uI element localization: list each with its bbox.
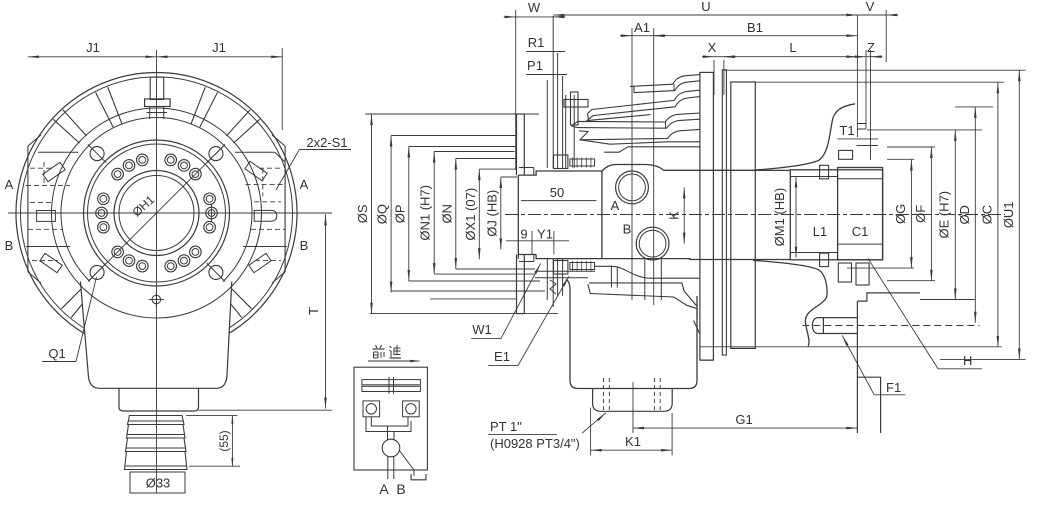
diameter extension line y=274 [434,273,535,275]
drive plate line x=566 [565,95,567,168]
diameter extension line y=269 [456,268,535,270]
diameter extension top line y=177 [501,176,517,178]
flange step [519,167,534,169]
svg-text:ØE (H7): ØE (H7) [937,191,952,239]
svg-text:A: A [300,177,309,192]
svg-text:K1: K1 [625,434,641,449]
svg-text:ØN: ØN [439,204,454,224]
front view rib at 228 deg [61,281,89,309]
drive plate line x=563 [562,76,564,168]
svg-text:PT 1": PT 1" [490,419,522,434]
right extension line y=159 [887,158,914,160]
right extension line y=359 [940,358,1026,360]
dimension ON [455,159,457,270]
drive plate lower line x=558 [557,259,559,296]
front view tab upper right [245,161,267,180]
svg-text:(55): (55) [217,430,231,451]
svg-text:B: B [300,238,309,253]
front view rib at 135 deg [63,110,87,136]
main centerline [505,214,1005,216]
drive plate line x=574 [573,95,575,168]
svg-text:K: K [667,211,682,220]
lower right wall [857,293,920,433]
svg-text:ØG: ØG [893,204,908,224]
front view right block hidden lines [259,167,283,169]
mounting flange plate [516,114,518,175]
svg-text:ØU1: ØU1 [1001,201,1016,228]
port A circle [616,171,649,204]
svg-text:W: W [528,0,541,15]
front view S1 crossed hole marks [209,147,223,161]
output hub body [790,170,882,260]
dimension ON1 [433,152,435,275]
drive plate lower line x=547 [546,259,548,300]
diameter extension line y=281 [409,280,540,282]
X extension lines [713,60,715,95]
sensor pin H [812,318,857,334]
dimension OG [910,160,912,269]
front view hub bore circle [114,171,199,256]
diameter extension top line y=146 [409,146,516,148]
drain plugs dashed [603,378,605,411]
svg-text:(H0928 PT3/4"): (H0928 PT3/4") [490,436,580,451]
svg-text:B: B [5,238,14,253]
dimension OS [371,114,373,314]
pin hidden centerline [802,325,979,327]
dimension K [683,187,685,243]
front view tab lower left [40,253,62,272]
right extension line y=347 [700,346,1002,348]
front view fin root circle [52,108,262,318]
sump outline [566,280,697,389]
svg-text:ØC: ØC [980,205,995,225]
upper adjusting bolt [564,100,588,108]
dimension K1 [591,449,673,451]
svg-text:X: X [708,40,717,55]
svg-text:Q1: Q1 [48,346,65,361]
svg-text:J1: J1 [86,40,100,55]
svg-text:R1: R1 [528,35,545,50]
drive plate lower line x=553 [552,259,554,307]
svg-text:ØM1 (HB): ØM1 (HB) [772,188,787,247]
svg-text:J1: J1 [212,40,226,55]
diameter extension top line y=152 [434,151,514,153]
svg-text:H: H [963,353,972,368]
lever support lines lower [535,270,595,272]
flange wall line a [856,15,858,137]
drive plate lower line x=563 [562,259,564,296]
dimension OJ [500,177,502,249]
front view diagonal centerline [89,146,223,280]
diameter extension top line y=169 [479,168,517,170]
W extension line [515,10,517,170]
front view bolt hole circle ring [204,221,216,233]
front view right key [254,210,277,221]
thread stud upper [554,155,568,169]
coupling C1 block [838,168,883,260]
clutch plate right [700,72,714,360]
dimension OD [974,107,976,323]
thread stud lower [554,261,568,275]
svg-text:Ø33: Ø33 [146,476,171,491]
diameter extension line y=314 [370,313,558,315]
hub lower rings [838,263,851,282]
diameter extension line y=291 [391,290,545,292]
svg-text:L1: L1 [813,224,827,239]
svg-text:50: 50 [550,185,564,200]
svg-text:ØX1 (07): ØX1 (07) [463,188,478,241]
K1 extension lines [590,408,592,456]
right extension line y=281 [887,280,935,282]
front view bearing outer circle [84,140,230,286]
svg-text:B: B [396,481,405,497]
front view left side block [27,146,29,272]
front view lower housing outline [80,282,231,389]
dimension OM1 [795,177,797,258]
dimension G1 [633,427,857,429]
dimension B1 [654,35,858,37]
front view inner ring circle [61,117,252,300]
dimension U [553,14,857,16]
right extension line y=268 [847,267,914,269]
svg-text:C1: C1 [852,224,869,239]
front view outer rim inner circle [20,77,292,332]
svg-text:W1: W1 [472,322,492,337]
svg-text:A: A [611,198,620,213]
svg-text:9: 9 [520,227,527,242]
bore wall lines below [644,260,646,301]
port A extension line [631,28,633,300]
svg-text:F1: F1 [886,380,901,395]
dimension OQ [390,136,392,293]
diameter extension top line y=158 [456,158,516,160]
right extension line y=70 [724,69,1025,71]
dimension A1 [632,35,654,37]
svg-text:A: A [379,481,389,497]
front view top plug [150,77,164,99]
svg-text:ØN1 (H7): ØN1 (H7) [418,185,433,241]
backing plate [722,70,726,355]
svg-text:Z: Z [867,40,875,55]
sump lip [593,389,673,412]
svg-text:T1: T1 [839,123,854,138]
housing neck upper curve [751,104,855,171]
clutch lever stack lower [595,266,700,278]
front view hub inner circle [119,176,194,251]
svg-text:B: B [623,222,632,237]
front view neck flange [119,389,199,412]
output hub bore lines [790,176,837,178]
front view bearing inner circle [88,144,226,282]
housing neck lower curve [753,260,827,346]
svg-text:E1: E1 [494,349,510,364]
svg-text:U: U [701,0,710,14]
svg-text:A: A [5,177,14,192]
drive plate line x=547 [546,80,548,168]
front view tab upper left [43,162,65,181]
svg-text:Y1: Y1 [537,227,553,242]
front view bottom center mark [152,295,161,304]
front view rib at 45 deg [234,119,260,143]
V extension line [885,10,887,62]
flange wall line b [865,50,867,129]
front view hose barb fitting [128,416,185,425]
dimension J1 [28,56,282,58]
front view left key [37,211,56,222]
front view tab lower right [249,253,271,272]
ring T1 [839,150,853,159]
output hub top line [751,169,790,171]
G1 extension line [632,382,634,433]
svg-text:L: L [789,40,796,55]
shaft step line 50 [521,200,596,202]
diameter extension top line y=136 [391,135,516,137]
dimension OP [408,147,410,282]
front view right side block [284,146,286,272]
drive plate line x=558 [557,53,559,168]
svg-text:A1: A1 [634,20,650,35]
dimension OX1 [478,169,480,259]
bearing block [731,82,756,348]
dimension OF [930,147,932,281]
dimension V [857,14,886,16]
front view lower housing silhouette [80,282,231,389]
right extension line y=130 [867,129,982,131]
dimension O33 [130,472,185,493]
svg-text:ØQ: ØQ [375,204,390,224]
shaft cylinder outline [518,171,602,259]
front view horizontal centerline [8,212,332,214]
dimension OC [997,82,999,347]
front view vertical centerline [156,50,158,493]
svg-text:ØP: ØP [392,204,407,223]
port B circle [636,227,669,260]
front view rib at 312 deg [217,287,242,317]
dimension T [325,214,327,408]
svg-text:ØJ (HB): ØJ (HB) [484,190,499,237]
svg-text:2x2-S1: 2x2-S1 [306,135,347,150]
clutch lever stack upper [630,75,700,87]
right extension line y=360 [700,359,714,361]
front view rib at 114 deg [108,87,122,123]
dimension (55) [231,416,233,467]
flange wall line c [870,50,872,160]
dimension OE [954,130,956,300]
svg-text:P1: P1 [527,58,543,73]
front view left block hidden lines [30,167,54,169]
dimension W [516,16,554,18]
front view outer rim circle [16,73,297,336]
svg-text:T: T [306,307,321,315]
forward gear detail schematic [354,367,427,470]
flange top edge line [365,113,539,115]
right extension line y=300 [920,299,975,301]
svg-text:ØS: ØS [355,204,370,223]
dimension Z [866,56,871,58]
dimension OU1 [1018,70,1020,359]
port B extension line [653,28,655,305]
port boss top outline [602,165,751,172]
svg-text:V: V [866,0,875,14]
right extension line y=107 [955,106,993,108]
front view bolt hole position tick [211,204,213,222]
drive plate line x=553 [552,16,554,168]
dimension L [724,56,858,58]
wall notch [857,123,866,125]
svg-text:G1: G1 [735,412,752,427]
dimension X [714,56,724,58]
bore bottom outline [602,258,790,261]
front view rib at 66 deg [200,93,218,128]
right extension line y=82 [755,81,1004,83]
right extension line y=147 [887,146,935,148]
snap ring L1 [820,165,829,179]
svg-text:ØF: ØF [913,205,928,223]
svg-text:B1: B1 [747,20,763,35]
svg-text:ØD: ØD [957,205,972,225]
diameter extension line y=299 [430,298,517,300]
